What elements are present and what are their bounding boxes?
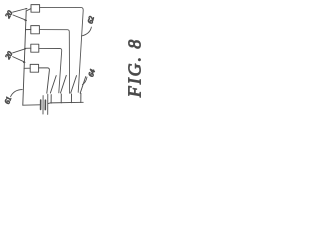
wire: box2 right L down (v2) — [39, 30, 69, 94]
leader: 62 curve — [81, 27, 91, 36]
svg-text:61: 61 — [3, 96, 13, 105]
wire: box1 right L down (v1) — [40, 7, 84, 92]
switch blade 4 — [80, 77, 86, 94]
leader arrow: 20 top upper — [13, 9, 27, 13]
battery 61: short plate — [44, 100, 46, 109]
switch stub 2 — [60, 94, 62, 103]
squib box 20c — [31, 44, 39, 52]
switch stub 3 — [70, 94, 72, 103]
battery 61: short plate — [40, 100, 42, 109]
wire: box3 right L down (v3) — [39, 48, 62, 92]
squib box 20b — [31, 26, 40, 34]
leader arrow: 20 top lower — [13, 15, 26, 20]
wire: bus to box3 — [25, 47, 31, 49]
wire: left bus vertical — [23, 11, 26, 105]
wire: box4 right L down (v4) — [39, 68, 50, 93]
leader: 64 curve — [82, 77, 87, 85]
wire: bus to box4 — [24, 67, 30, 69]
svg-text:20: 20 — [4, 50, 15, 61]
switch stub 1 — [50, 95, 52, 104]
switch stub 4 — [80, 93, 82, 102]
switch blade 3 — [71, 76, 77, 93]
squib box 20a — [31, 5, 40, 13]
svg-text:64: 64 — [87, 68, 97, 78]
svg-text:FIG. 8: FIG. 8 — [125, 38, 145, 98]
bus: bottom switch bus — [48, 102, 83, 103]
battery 61: long plate — [42, 96, 44, 114]
squib box 20d — [30, 64, 38, 72]
svg-text:20: 20 — [4, 9, 15, 20]
battery 61: long plate — [47, 94, 49, 114]
wire: bus to box2 — [26, 29, 31, 31]
leader: 61 curve — [11, 90, 23, 97]
svg-text:62: 62 — [86, 15, 96, 24]
wire: bus to box1 — [26, 9, 31, 11]
switch blade 1 — [50, 76, 56, 93]
leader arrow: 20 mid lower — [13, 57, 25, 63]
leader arrow: 20 mid upper — [13, 49, 26, 53]
wire: bottom-left horizontal to battery — [23, 104, 40, 106]
switch blade 2 — [61, 75, 67, 93]
